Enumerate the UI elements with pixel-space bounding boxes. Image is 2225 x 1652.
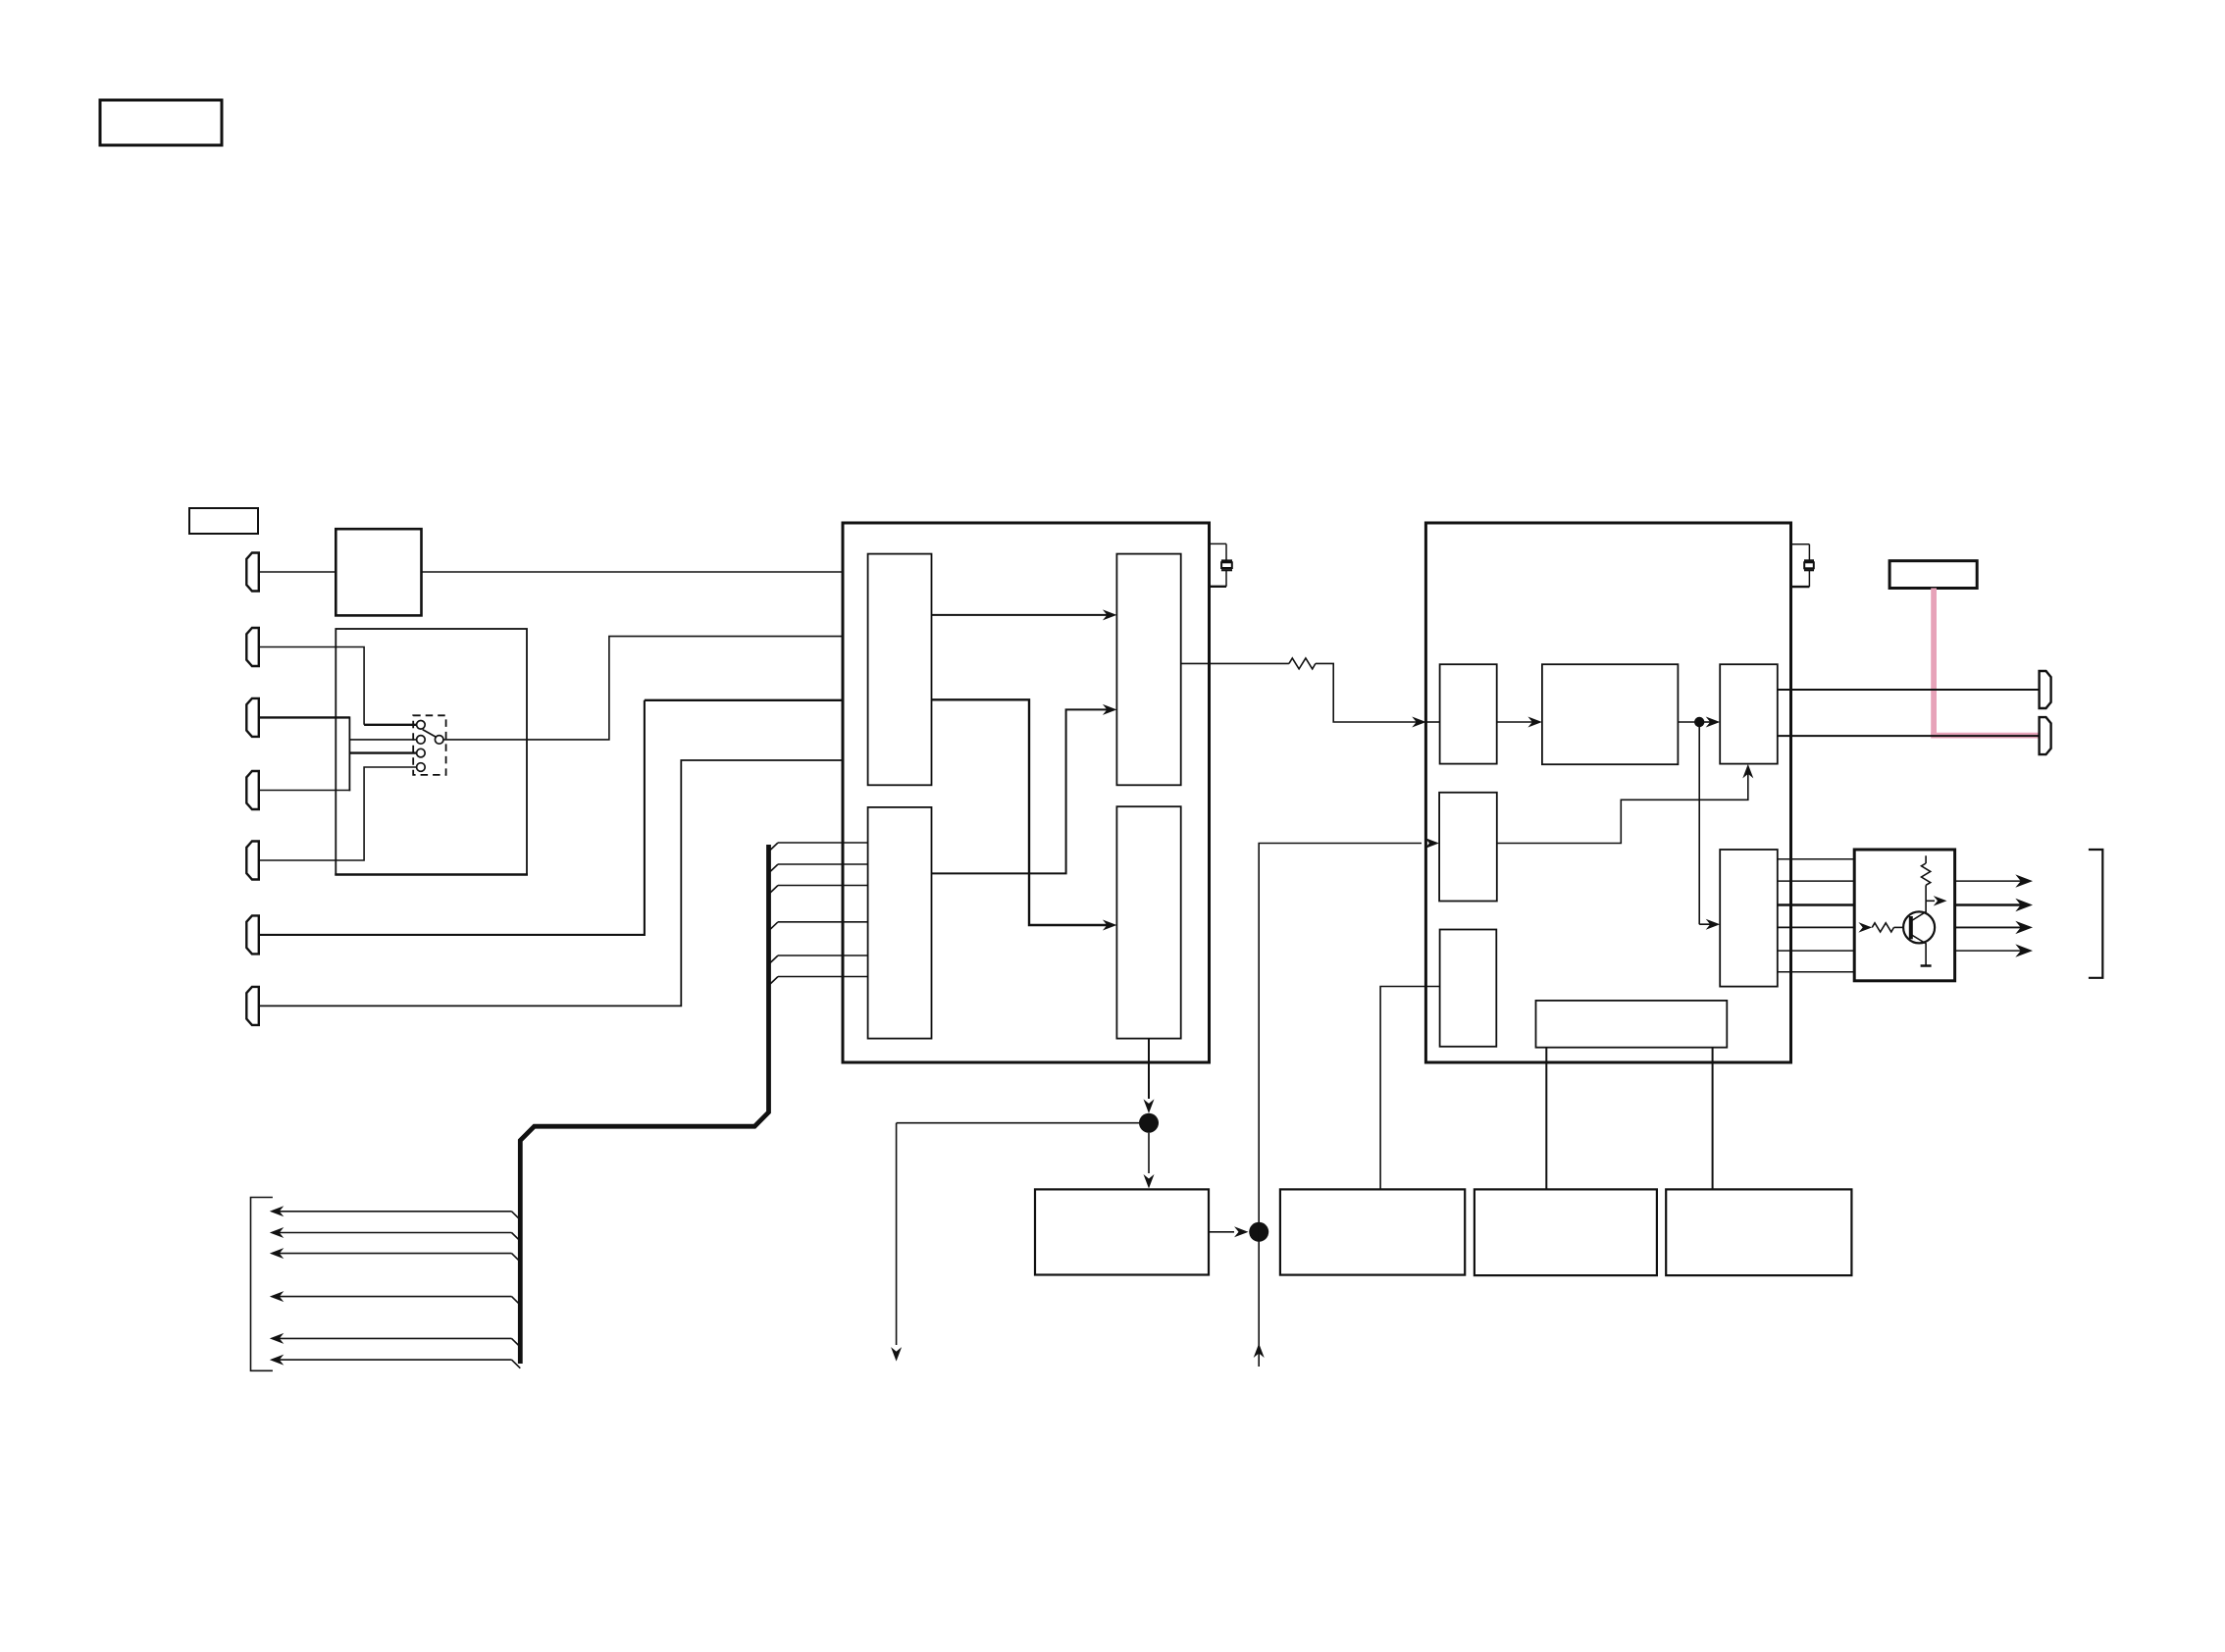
U2 block B <box>1542 664 1679 764</box>
U1 arrow wire 2 (thick bend) <box>932 699 1113 925</box>
switch contact circle 3 <box>417 749 426 757</box>
crystal X1 at U1 <box>1210 543 1233 586</box>
U2 block F <box>1536 1001 1728 1048</box>
arrow into transistor base resistor <box>1858 922 1872 932</box>
ground <box>1921 964 1932 967</box>
switch dashed box <box>413 715 445 775</box>
X'tal box <box>336 529 421 615</box>
crystal X2 at U2 <box>1791 544 1815 587</box>
arrow node J1 to box H <box>1148 1133 1150 1173</box>
U2 block C <box>1720 664 1778 763</box>
node J3 (junction dot) <box>1694 717 1704 727</box>
wire block F down to box K <box>1712 1048 1714 1190</box>
wire P1 to X'tal box <box>259 571 336 573</box>
wire P3 to switch contact 3 <box>259 716 350 718</box>
node J1 (junction dot) <box>1139 1113 1159 1133</box>
wire block B to node J3 <box>1678 721 1694 723</box>
bus (thick) <box>520 845 768 1364</box>
wire P6 to IC1 (thick) <box>259 700 645 935</box>
wire into node J1 from left <box>897 1122 1139 1124</box>
arrow node J3 to block C <box>1704 721 1716 723</box>
U1 inner block left-top <box>868 554 932 786</box>
transistor Q1 <box>1903 901 1935 965</box>
connector pill B <box>2040 717 2051 754</box>
U1 arrow wire 3 (bend up) <box>932 709 1113 873</box>
connector pill P7 <box>246 987 258 1025</box>
wire P4 to switch contact 2 <box>259 790 350 792</box>
region box <box>336 629 527 875</box>
U2 block D <box>1439 793 1497 902</box>
wire switch common to IC1 <box>443 637 843 740</box>
connector pill P6 <box>246 915 258 954</box>
U2 block G <box>1720 850 1778 987</box>
IC U1 box <box>843 523 1210 1062</box>
IC U2 box <box>1425 523 1790 1062</box>
connector pill P3 <box>246 698 258 737</box>
wire block E down-left to box I <box>1380 987 1440 1190</box>
wire U2 block C to pill A <box>1778 689 2040 691</box>
switch common circle <box>435 736 443 745</box>
wire U1 lower-right block down to node <box>1148 1039 1150 1099</box>
wire R1 to IC2 with arrow <box>1316 663 1422 722</box>
U1 arrow wire 1 <box>932 614 1113 616</box>
wire P7 to IC1 <box>259 760 843 1006</box>
U2 block E <box>1440 930 1497 1047</box>
wire X'tal box to IC1 <box>422 571 844 573</box>
box I <box>1280 1189 1465 1274</box>
resistor R2 (base) <box>1872 923 1893 932</box>
bus branch pins into U1 lower-left block <box>769 843 868 986</box>
label box CN <box>189 508 258 534</box>
label box right <box>1889 561 1977 589</box>
U1 inner block left-bottom <box>868 807 932 1039</box>
output arrows from transistor box <box>1955 881 2021 951</box>
connector pill A <box>2040 671 2051 708</box>
wire U2 block C to pill B <box>1778 735 2040 737</box>
wire block F down to box J <box>1545 1048 1547 1190</box>
frame box top-left <box>100 100 222 145</box>
connector pill P4 <box>246 771 258 809</box>
bus exit lines with arrows to left bracket <box>274 1212 520 1368</box>
box J <box>1475 1189 1657 1275</box>
resistor R3 (pull-up) <box>1922 855 1931 901</box>
node J2 (junction dot) <box>1249 1222 1268 1242</box>
wire P5 to switch contact 4 <box>259 767 417 860</box>
collector node arrow <box>1926 900 1935 902</box>
wire down with arrow (off-page) <box>896 1123 898 1345</box>
resistor R1 <box>1289 658 1316 669</box>
wire U1 to resistor R1 <box>1181 662 1289 664</box>
connector pill P2 <box>246 628 258 666</box>
wire node J2 down with up-arrow (off-page) <box>1258 1232 1260 1367</box>
box H <box>1035 1189 1209 1274</box>
wires U2 block G to transistor box <box>1778 859 1854 972</box>
left bracket <box>251 1198 273 1371</box>
switch contact circle 1 <box>417 721 426 730</box>
U1 inner block right-bottom <box>1116 806 1180 1038</box>
connector pill P1 <box>246 553 258 592</box>
wire node J2 up and into IC2 block D <box>1259 844 1422 1232</box>
switch contact circle 4 <box>417 763 426 772</box>
arrow box H to node J2 <box>1209 1231 1234 1233</box>
U1 inner block right-top <box>1116 554 1180 786</box>
wire node J3 down to block G with arrow <box>1698 722 1700 924</box>
right bracket <box>2089 850 2102 978</box>
switch contact circle 2 <box>417 736 426 745</box>
pink highlight wire <box>1931 589 2040 736</box>
wire block D to block C (bent, up arrow) <box>1497 768 1748 844</box>
connector pill P5 <box>246 842 258 880</box>
arrow block A to block B <box>1497 721 1537 723</box>
box K <box>1666 1189 1851 1275</box>
transistor box <box>1854 850 1954 981</box>
U2 block A <box>1440 664 1497 763</box>
wire P2 to switch contact 1 <box>259 647 364 725</box>
switch lever <box>423 730 436 737</box>
